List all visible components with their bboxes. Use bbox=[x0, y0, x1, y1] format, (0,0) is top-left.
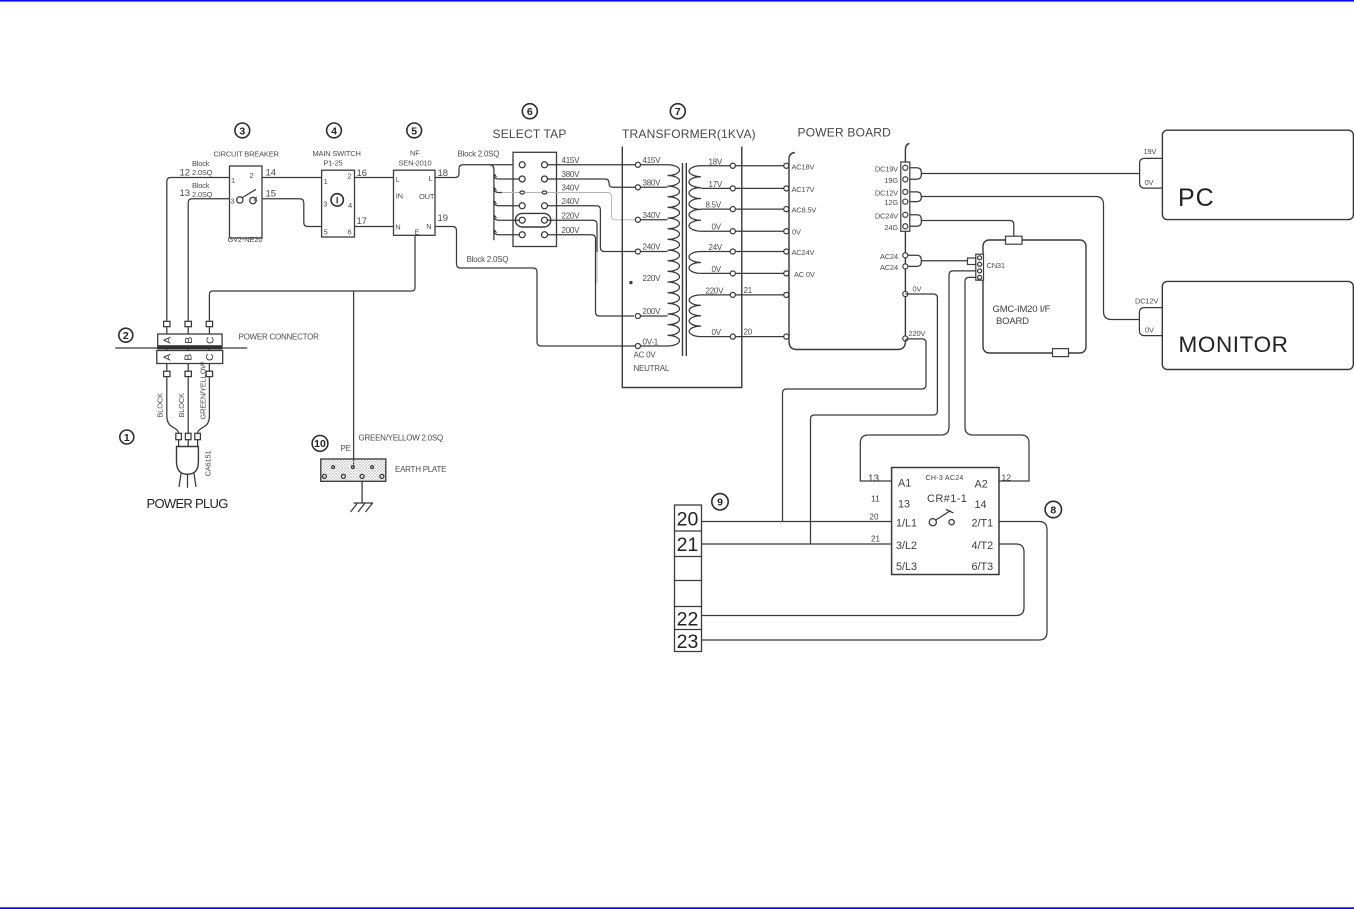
bus link row2 bbox=[494, 175, 520, 180]
wire 16 (main switch pin2 to NF L) bbox=[355, 177, 394, 179]
svg-text:19V: 19V bbox=[1144, 147, 1157, 156]
connector mating bar bbox=[157, 346, 222, 349]
connector lower half bbox=[157, 351, 223, 364]
tap pin R5 bbox=[542, 217, 548, 223]
svg-text:21: 21 bbox=[744, 286, 753, 295]
svg-text:OUT: OUT bbox=[419, 192, 435, 201]
svg-text:MAIN SWITCH: MAIN SWITCH bbox=[313, 149, 361, 158]
svg-text:POWER CONNECTOR: POWER CONNECTOR bbox=[239, 333, 320, 342]
svg-text:AC24: AC24 bbox=[880, 252, 898, 261]
svg-text:21: 21 bbox=[871, 535, 880, 544]
svg-text:BLOCK: BLOCK bbox=[156, 393, 165, 418]
svg-text:PC: PC bbox=[1178, 184, 1215, 212]
svg-text:200V: 200V bbox=[562, 226, 581, 235]
svg-text:AC8.5V: AC8.5V bbox=[792, 206, 817, 215]
svg-text:C: C bbox=[204, 336, 216, 344]
svg-text:3: 3 bbox=[231, 197, 235, 206]
svg-text:A: A bbox=[161, 354, 173, 361]
svg-text:20: 20 bbox=[744, 328, 753, 337]
tap pin R1 bbox=[542, 162, 548, 168]
circuit breaker CB box bbox=[230, 166, 263, 238]
breaker switch contacts bbox=[237, 197, 243, 203]
terminal square C top bbox=[206, 321, 212, 326]
left terminal 0V bbox=[784, 229, 789, 234]
wire B through connector bbox=[187, 327, 189, 371]
svg-text:C: C bbox=[204, 353, 216, 361]
svg-text:415V: 415V bbox=[562, 156, 581, 165]
svg-text:AC24: AC24 bbox=[880, 263, 898, 272]
circled 1 bbox=[120, 430, 134, 444]
GMC bottom connector bbox=[1053, 349, 1069, 357]
svg-text:11: 11 bbox=[871, 494, 880, 504]
tap pin L5 bbox=[519, 217, 525, 223]
svg-text:NEUTRAL: NEUTRAL bbox=[634, 364, 670, 373]
svg-text:200V: 200V bbox=[643, 307, 662, 316]
svg-text:DC12V: DC12V bbox=[875, 188, 898, 197]
svg-text:BOARD: BOARD bbox=[996, 316, 1029, 327]
power board right column bbox=[905, 144, 909, 336]
wire A through connector bbox=[166, 327, 168, 371]
CN31 connector bbox=[976, 254, 984, 280]
wire terminal20 to 1/L1 bbox=[702, 521, 892, 523]
right terminal DC19V bbox=[903, 165, 908, 170]
circled 9 bbox=[712, 494, 728, 510]
panel line bbox=[115, 347, 247, 349]
svg-text:GMC-IM20 I/F: GMC-IM20 I/F bbox=[993, 304, 1051, 315]
tap pin R4 bbox=[542, 203, 548, 209]
wire 0V (20) bbox=[736, 336, 784, 338]
plug pin stubs bbox=[178, 440, 180, 447]
svg-text:AC 0V: AC 0V bbox=[794, 270, 815, 279]
svg-text:9: 9 bbox=[717, 497, 723, 509]
primary tap 0V-1 bbox=[635, 343, 640, 348]
svg-text:DC24V: DC24V bbox=[875, 211, 898, 220]
connector bracket 24V pair bbox=[910, 215, 922, 227]
svg-text:I: I bbox=[336, 196, 339, 207]
secondary winding 1 (18V/17V/8.5V/0V) bbox=[689, 166, 701, 231]
power plug body bbox=[177, 447, 199, 475]
wire 415V to transformer bbox=[548, 164, 635, 166]
svg-text:0V: 0V bbox=[1145, 178, 1154, 187]
wire CN31 pin3 to relay A1 bbox=[860, 271, 977, 481]
bus link row4 bbox=[494, 201, 520, 206]
select tap box bbox=[513, 152, 557, 246]
wire 220V (21) bbox=[736, 294, 784, 296]
secondary terminal 0V (24V winding) bbox=[730, 271, 735, 276]
svg-text:2.0SQ: 2.0SQ bbox=[192, 190, 213, 199]
core lines bbox=[682, 163, 684, 356]
svg-text:13: 13 bbox=[868, 474, 880, 485]
svg-text:E: E bbox=[415, 228, 420, 237]
svg-text:1: 1 bbox=[124, 432, 130, 444]
svg-text:2: 2 bbox=[250, 171, 254, 180]
svg-text:DC12V: DC12V bbox=[1135, 297, 1158, 306]
svg-text:3/L2: 3/L2 bbox=[896, 540, 917, 552]
wire AC17V bbox=[736, 187, 784, 189]
svg-text:220V: 220V bbox=[562, 211, 581, 220]
svg-text:P1-25: P1-25 bbox=[324, 159, 343, 168]
secondary terminal 220V bbox=[730, 292, 735, 297]
left terminal AC24V bbox=[784, 249, 789, 254]
secondary terminal 24V bbox=[730, 249, 735, 254]
tap pin L6 bbox=[519, 232, 525, 238]
svg-text:BLOCK: BLOCK bbox=[177, 393, 186, 418]
circled 8 bbox=[1045, 501, 1061, 517]
wire DC19V to PC bbox=[921, 173, 1139, 175]
svg-text:B: B bbox=[183, 337, 195, 344]
svg-text:18: 18 bbox=[438, 168, 449, 179]
right terminal DC24V bbox=[903, 212, 908, 217]
svg-text:PE: PE bbox=[341, 444, 351, 453]
svg-text:Block 2.0SQ: Block 2.0SQ bbox=[458, 150, 500, 159]
right terminal DC12V bbox=[903, 189, 908, 194]
secondary terminal 0V bbox=[730, 229, 735, 234]
svg-text:CIRCUIT BREAKER: CIRCUIT BREAKER bbox=[214, 150, 280, 159]
svg-text:0V: 0V bbox=[792, 228, 801, 237]
cord C to plug bbox=[198, 377, 210, 433]
svg-text:POWER BOARD: POWER BOARD bbox=[798, 125, 892, 139]
plug pin square C bbox=[195, 433, 201, 439]
svg-text:380V: 380V bbox=[643, 179, 662, 188]
svg-text:240V: 240V bbox=[562, 197, 581, 206]
svg-text:0V: 0V bbox=[712, 328, 722, 337]
plug pin square A bbox=[176, 433, 182, 439]
wire 220V (unused drop) bbox=[548, 220, 597, 252]
svg-text:3: 3 bbox=[239, 125, 245, 137]
earth plate hole 1 bbox=[332, 466, 335, 469]
secondary terminal 0V (220V winding) bbox=[730, 334, 735, 339]
svg-text:CR#1-1: CR#1-1 bbox=[927, 493, 967, 505]
svg-text:12G: 12G bbox=[884, 198, 898, 207]
svg-text:POWER PLUG: POWER PLUG bbox=[147, 496, 229, 511]
main switch SW box bbox=[322, 170, 355, 237]
svg-text:A2: A2 bbox=[975, 479, 988, 491]
svg-text:AC 0V: AC 0V bbox=[634, 351, 657, 360]
terminal AC24 b bbox=[903, 264, 908, 269]
svg-text:17V: 17V bbox=[709, 180, 723, 189]
earth plate hole 7 bbox=[380, 474, 384, 478]
transformer enclosure bbox=[622, 147, 742, 388]
svg-text:GV2-NE20: GV2-NE20 bbox=[228, 235, 263, 244]
circled 4 bbox=[327, 123, 342, 138]
wire DC24V to GMC board connector bbox=[921, 221, 1014, 237]
bottom blue border bbox=[0, 907, 1354, 909]
wire 240V to transformer bbox=[548, 206, 635, 252]
svg-text:12: 12 bbox=[180, 168, 191, 179]
svg-text:340V: 340V bbox=[643, 211, 662, 220]
select tap input bus bbox=[489, 165, 494, 241]
svg-text:GREEN/YELLOW: GREEN/YELLOW bbox=[199, 361, 208, 420]
right terminal 24G bbox=[903, 224, 908, 229]
svg-text:N: N bbox=[426, 222, 431, 231]
svg-text:2/T1: 2/T1 bbox=[972, 517, 994, 529]
svg-text:MONITOR: MONITOR bbox=[1179, 332, 1289, 357]
wire AC8.5V bbox=[736, 208, 784, 210]
tap pin R2 bbox=[542, 176, 548, 182]
svg-text:8.5V: 8.5V bbox=[706, 201, 722, 210]
primary tap 340V bbox=[635, 217, 640, 222]
wire terminal21 to 3/L2 bbox=[702, 543, 892, 545]
PC box bbox=[1162, 130, 1353, 219]
svg-text:23: 23 bbox=[677, 631, 699, 653]
primary tap 220V (dot) bbox=[629, 281, 632, 284]
svg-text:1: 1 bbox=[231, 176, 235, 185]
svg-text:5: 5 bbox=[324, 228, 328, 237]
svg-text:0V-1: 0V-1 bbox=[643, 338, 659, 347]
svg-text:CH-3 AC24: CH-3 AC24 bbox=[926, 475, 964, 482]
svg-text:EARTH PLATE: EARTH PLATE bbox=[395, 465, 446, 474]
primary tap 380V bbox=[635, 185, 640, 190]
secondary winding 3 (220V/0V) bbox=[689, 295, 701, 337]
circled 2 bbox=[119, 328, 133, 342]
earth plate hole 3 bbox=[371, 466, 374, 469]
svg-text:GREEN/YELLOW 2.0SQ: GREEN/YELLOW 2.0SQ bbox=[359, 434, 443, 443]
svg-text:0V: 0V bbox=[913, 285, 922, 294]
left terminal AC17V bbox=[784, 186, 789, 191]
relay contact symbol bbox=[929, 519, 936, 526]
CN31 pre-connector bbox=[968, 258, 976, 265]
wire AC24V bbox=[736, 251, 784, 253]
primary tap 200V bbox=[635, 313, 640, 318]
svg-text:2: 2 bbox=[123, 330, 129, 342]
wire 14 (breaker pin2 to main switch pin1) bbox=[262, 177, 322, 179]
power board left bracket and bottom edge bbox=[789, 153, 905, 350]
svg-text:Block: Block bbox=[192, 181, 210, 190]
PC power connector bbox=[1140, 158, 1163, 188]
svg-text:L: L bbox=[396, 175, 400, 184]
secondary winding 2 (24V/0V) bbox=[689, 252, 701, 274]
wire 220V down to terminal 20 bbox=[783, 339, 927, 522]
svg-text:DC19V: DC19V bbox=[875, 164, 898, 173]
terminal square C bottom bbox=[206, 371, 212, 376]
svg-text:8: 8 bbox=[1050, 504, 1056, 516]
svg-text:A1: A1 bbox=[898, 478, 911, 490]
plug pin square B bbox=[185, 433, 191, 439]
terminal AC24 a bbox=[903, 253, 908, 258]
wire C through connector bbox=[208, 327, 210, 371]
tap pin L2 bbox=[519, 176, 525, 182]
circled 6 bbox=[522, 104, 537, 119]
svg-text:2.0SQ: 2.0SQ bbox=[192, 168, 213, 177]
svg-text:18V: 18V bbox=[709, 157, 723, 166]
wire 19 (NF N out to transformer neutral) bbox=[435, 227, 635, 347]
svg-text:20: 20 bbox=[870, 513, 879, 522]
svg-text:12: 12 bbox=[1002, 473, 1012, 483]
svg-text:0V: 0V bbox=[712, 265, 722, 274]
relay box bbox=[892, 468, 999, 575]
svg-text:340V: 340V bbox=[562, 184, 581, 193]
svg-text:17: 17 bbox=[357, 216, 368, 227]
primary tap 415V bbox=[635, 162, 640, 167]
svg-text:20: 20 bbox=[677, 509, 699, 531]
connector upper half bbox=[158, 334, 222, 346]
svg-text:1/L1: 1/L1 bbox=[896, 517, 917, 529]
wire PE drop to earth plate bbox=[353, 291, 355, 467]
svg-text:Block: Block bbox=[192, 159, 210, 168]
wire DC12V to MONITOR bbox=[921, 197, 1139, 320]
dc connector strip bbox=[901, 162, 910, 231]
MONITOR box bbox=[1162, 281, 1353, 369]
wire 0V bbox=[736, 230, 784, 232]
svg-text:220V: 220V bbox=[643, 274, 662, 283]
svg-text:16: 16 bbox=[357, 168, 368, 179]
svg-text:220V: 220V bbox=[706, 286, 725, 295]
connector bracket AC24 pair bbox=[908, 255, 921, 266]
wire AC24 pair to CN31 bbox=[921, 260, 967, 262]
wire 13 (plug B to breaker pin3) bbox=[188, 199, 229, 321]
svg-text:21: 21 bbox=[677, 534, 699, 556]
wire 18 (NF L out to select tap bus) bbox=[435, 165, 519, 178]
circled 5 bbox=[407, 123, 422, 138]
svg-text:CA6151: CA6151 bbox=[204, 451, 213, 477]
svg-text:NF: NF bbox=[410, 149, 420, 158]
connector bracket 12V pair bbox=[910, 192, 922, 202]
svg-text:6: 6 bbox=[527, 106, 533, 118]
MONITOR power connector bbox=[1139, 308, 1162, 336]
tap pin L4 bbox=[519, 203, 525, 209]
terminal 220V bbox=[903, 336, 908, 341]
svg-text:4: 4 bbox=[348, 201, 352, 210]
terminal square B top bbox=[185, 321, 191, 326]
svg-text:6/T3: 6/T3 bbox=[972, 561, 994, 573]
wire 340V thin to transformer bbox=[548, 193, 635, 220]
tap pin L3 (small) bbox=[520, 191, 525, 194]
svg-text:5/L3: 5/L3 bbox=[896, 561, 917, 573]
svg-text:0V: 0V bbox=[1145, 326, 1154, 335]
wire 4/T2 to terminal 22 bbox=[702, 544, 1025, 616]
wire AC18V bbox=[736, 165, 784, 167]
wire 15 (breaker pin4 to main switch pin5) bbox=[262, 199, 322, 227]
wire 200V to transformer bbox=[548, 235, 634, 316]
svg-text:AC24V: AC24V bbox=[792, 248, 815, 257]
NF noise filter U box bbox=[394, 170, 436, 235]
svg-text:240V: 240V bbox=[643, 243, 662, 252]
row3 thin interior wire bbox=[525, 192, 543, 194]
bus link row3 bbox=[501, 192, 520, 194]
left terminal 220V(21) bbox=[784, 292, 789, 297]
primary winding coil bbox=[668, 165, 680, 346]
wire 380V to transformer bbox=[548, 179, 636, 187]
svg-text:6: 6 bbox=[348, 228, 352, 237]
right terminal 12G bbox=[903, 199, 908, 204]
svg-text:220V: 220V bbox=[909, 329, 926, 338]
wire CN31 pin4 to relay A2 bbox=[965, 277, 1029, 481]
secondary terminal 17V bbox=[730, 186, 735, 191]
secondary terminal 8.5V bbox=[730, 207, 735, 212]
connector bracket 19V pair bbox=[910, 168, 922, 180]
earth plate hole 2 bbox=[352, 466, 355, 469]
svg-text:13: 13 bbox=[898, 499, 910, 511]
svg-text:CN31: CN31 bbox=[987, 261, 1005, 270]
svg-text:SEN-2010: SEN-2010 bbox=[399, 159, 432, 168]
tap pin R6 bbox=[542, 232, 548, 238]
svg-text:Block 2.0SQ: Block 2.0SQ bbox=[467, 255, 509, 264]
primary tap stubs bbox=[641, 164, 668, 166]
bus link row6 bbox=[494, 230, 520, 235]
cord B to plug bbox=[187, 377, 189, 433]
left terminal AC 0V bbox=[784, 271, 789, 276]
jumper stadium 220V bbox=[515, 213, 550, 227]
wire 2/T1 to terminal 23 bbox=[702, 522, 1048, 641]
earth plate hole 6 bbox=[360, 474, 364, 478]
earth plate hole 4 bbox=[322, 474, 326, 478]
GMC top connector bbox=[1006, 236, 1023, 244]
left terminal 0V(20) bbox=[784, 334, 789, 339]
svg-text:1: 1 bbox=[324, 177, 328, 186]
terminal block outline bbox=[675, 505, 702, 652]
svg-text:IN: IN bbox=[396, 192, 403, 201]
svg-text:22: 22 bbox=[677, 609, 699, 631]
terminal square A bottom bbox=[164, 371, 170, 376]
wire 17 (main switch pin6 to NF N) bbox=[355, 226, 394, 228]
circled 7 bbox=[670, 104, 685, 119]
svg-text:5: 5 bbox=[411, 125, 417, 137]
ground symbol bbox=[354, 502, 374, 504]
svg-text:13: 13 bbox=[180, 188, 191, 199]
earth plate body bbox=[321, 459, 386, 481]
svg-text:24V: 24V bbox=[709, 243, 723, 252]
wire 12 (plug A to breaker pin1) bbox=[167, 178, 230, 321]
svg-text:19G: 19G bbox=[884, 176, 898, 185]
svg-text:14: 14 bbox=[975, 499, 987, 511]
wire AC 0V bbox=[736, 272, 784, 274]
svg-text:15: 15 bbox=[266, 189, 277, 200]
tap pin L1 bbox=[519, 162, 525, 168]
circled I power symbol bbox=[331, 194, 343, 206]
svg-text:A: A bbox=[162, 337, 174, 344]
svg-text:N: N bbox=[395, 223, 400, 232]
svg-text:10: 10 bbox=[314, 438, 326, 450]
bus link row5 bbox=[494, 216, 520, 221]
top blue border bbox=[0, 0, 1354, 2]
secondary terminal 18V bbox=[730, 163, 735, 168]
svg-text:3: 3 bbox=[323, 200, 327, 209]
svg-text:24G: 24G bbox=[884, 223, 898, 232]
svg-text:19: 19 bbox=[438, 213, 449, 224]
left terminal AC8.5V bbox=[784, 207, 789, 212]
svg-text:TRANSFORMER(1KVA): TRANSFORMER(1KVA) bbox=[622, 127, 756, 141]
left terminal AC18V bbox=[784, 163, 789, 168]
svg-text:4/T2: 4/T2 bbox=[972, 540, 994, 552]
circled 3 bbox=[235, 123, 250, 138]
svg-text:7: 7 bbox=[675, 106, 681, 118]
right terminal 19G bbox=[903, 177, 908, 182]
svg-text:415V: 415V bbox=[643, 156, 662, 165]
GMC board outline bbox=[983, 240, 1086, 353]
primary tap 240V bbox=[635, 249, 640, 254]
terminal square A top bbox=[164, 321, 170, 326]
svg-text:14: 14 bbox=[266, 168, 277, 179]
svg-text:4: 4 bbox=[331, 125, 337, 137]
wire 0V down to terminal 21 bbox=[811, 294, 938, 544]
svg-text:2: 2 bbox=[348, 172, 352, 181]
svg-text:0V: 0V bbox=[712, 223, 722, 232]
terminal 0V bbox=[903, 291, 908, 296]
svg-text:AC18V: AC18V bbox=[792, 162, 815, 171]
wire E (NF earth to connector C and earth plate) bbox=[209, 235, 415, 320]
svg-text:380V: 380V bbox=[562, 170, 581, 179]
svg-text:SELECT TAP: SELECT TAP bbox=[493, 127, 567, 141]
earth plate hole 5 bbox=[341, 474, 345, 478]
earth plate ground wire bbox=[361, 481, 363, 502]
circled 10 bbox=[312, 436, 328, 452]
plug prongs bbox=[179, 474, 181, 488]
tap pin R3 (small) bbox=[542, 191, 547, 194]
svg-text:AC17V: AC17V bbox=[792, 185, 815, 194]
cord A to plug bbox=[167, 377, 179, 433]
terminal square B bottom bbox=[185, 371, 191, 376]
svg-text:B: B bbox=[183, 354, 195, 361]
